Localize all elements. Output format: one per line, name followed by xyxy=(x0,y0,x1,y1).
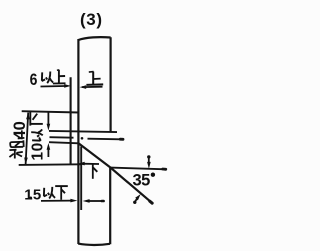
svg-text:5: 5 xyxy=(33,186,41,203)
upper plate outline xyxy=(78,37,110,131)
dimension 6以上 xyxy=(30,70,71,89)
svg-text:6: 6 xyxy=(30,71,38,89)
left edge shared by both plates xyxy=(77,39,79,244)
lower plate bottom edge xyxy=(78,244,110,245)
dimension line 約40 (vertical, arrows both ends) xyxy=(24,112,30,164)
angle arrow lower xyxy=(133,194,141,204)
dimension 1.5以下 xyxy=(24,186,103,203)
label 下 with leader arrow xyxy=(78,162,99,179)
svg-text:40: 40 xyxy=(11,121,29,139)
dimension 10以下 outside arrows xyxy=(47,112,51,157)
svg-text:10: 10 xyxy=(29,142,46,160)
scribed line 6mm left of plate edge xyxy=(70,77,72,164)
text 10以下 (rotated) xyxy=(29,112,46,161)
text 約40 (rotated) xyxy=(9,121,28,158)
svg-text:35: 35 xyxy=(133,172,151,190)
label 上 with leader arrow xyxy=(80,72,104,89)
angle reference line xyxy=(110,168,166,170)
extension line at bevel start xyxy=(49,142,79,143)
bevel cut diagonal 35deg xyxy=(79,143,152,202)
svg-text:(3): (3) xyxy=(80,10,103,29)
text 35deg xyxy=(133,172,156,190)
angle arrow upper xyxy=(147,155,151,169)
lower plate right edge xyxy=(109,168,111,245)
top extension line xyxy=(22,111,79,112)
center line (dash-dot) xyxy=(50,137,124,140)
svg-text:1: 1 xyxy=(24,186,32,203)
bottom extension line xyxy=(19,163,81,166)
scribe line on lower plate (1.5 offset) xyxy=(80,147,82,211)
diagonal end blob xyxy=(150,201,152,203)
upper plate bottom edge xyxy=(49,131,117,132)
